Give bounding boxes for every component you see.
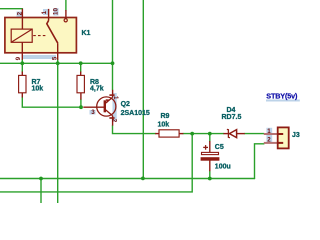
svg-text:10k: 10k <box>32 86 44 93</box>
svg-text:3: 3 <box>91 109 95 116</box>
svg-text:10: 10 <box>53 8 60 15</box>
svg-text:K1: K1 <box>82 30 91 37</box>
svg-text:5: 5 <box>51 56 58 60</box>
svg-text:1: 1 <box>267 128 271 135</box>
svg-text:RD7.5: RD7.5 <box>222 114 242 121</box>
svg-text:J3: J3 <box>292 132 300 139</box>
svg-text:Q2: Q2 <box>121 101 130 108</box>
svg-text:STBY(5v): STBY(5v) <box>266 92 298 101</box>
svg-text:2: 2 <box>111 119 118 123</box>
svg-text:4,7k: 4,7k <box>90 86 104 93</box>
svg-text:R9: R9 <box>161 113 170 120</box>
svg-text:2SA1015: 2SA1015 <box>121 110 150 117</box>
svg-text:9: 9 <box>15 56 22 60</box>
svg-text:D4: D4 <box>227 107 236 114</box>
svg-text:1: 1 <box>112 96 119 100</box>
svg-text:100u: 100u <box>215 163 231 170</box>
svg-text:2: 2 <box>16 11 23 15</box>
svg-text:1: 1 <box>41 10 48 14</box>
svg-text:C5: C5 <box>215 144 224 151</box>
svg-text:10k: 10k <box>158 122 170 129</box>
svg-text:2: 2 <box>267 137 271 144</box>
